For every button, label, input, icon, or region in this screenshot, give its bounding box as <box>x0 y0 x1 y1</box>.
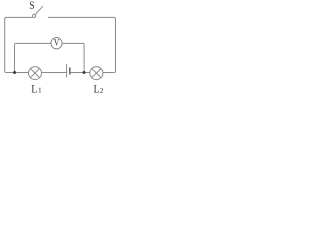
lamp L2 <box>90 67 103 80</box>
switch S lever (open) <box>35 6 42 14</box>
lamp L1 <box>29 67 42 80</box>
wire: voltmeter branch left <box>15 43 51 72</box>
svg-text:V: V <box>54 39 60 49</box>
voltmeter circle <box>51 38 62 49</box>
wire: top-left segment, left side and bottom-left of outer loop <box>5 17 33 72</box>
junction node right <box>83 71 86 74</box>
svg-text:L: L <box>94 83 100 94</box>
label S <box>29 0 34 12</box>
switch S terminal circle <box>33 14 36 17</box>
label L1 <box>31 83 42 95</box>
svg-text:2: 2 <box>100 87 104 94</box>
battery long plate (+) <box>66 64 68 78</box>
svg-text:S: S <box>29 0 34 12</box>
svg-text:1: 1 <box>38 86 42 94</box>
wire: voltmeter branch right <box>62 43 84 72</box>
wire: bottom between L1 and battery <box>42 72 67 74</box>
voltmeter V letter <box>54 39 60 49</box>
wire: bottom between battery and L2 <box>70 72 90 74</box>
wire: top-right segment, right side and bottom-right of outer loop <box>48 17 116 72</box>
label L2 <box>94 83 104 95</box>
svg-text:L: L <box>31 83 37 94</box>
battery short thick plate (-) <box>69 68 71 75</box>
junction node left <box>13 71 16 74</box>
